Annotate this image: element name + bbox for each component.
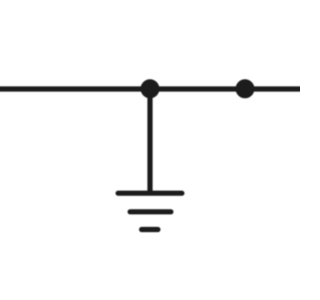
ground: bar 2 (middle)	[130, 209, 171, 214]
wire: horizontal bus	[0, 86, 302, 91]
ground: bar 3 (bottom, shortest)	[142, 227, 158, 232]
node: junction dot right	[236, 79, 255, 98]
wire: vertical drop to ground	[147, 89, 152, 192]
ground: bar 1 (top, widest)	[118, 191, 182, 196]
node: junction dot at vertical branch	[141, 79, 160, 98]
